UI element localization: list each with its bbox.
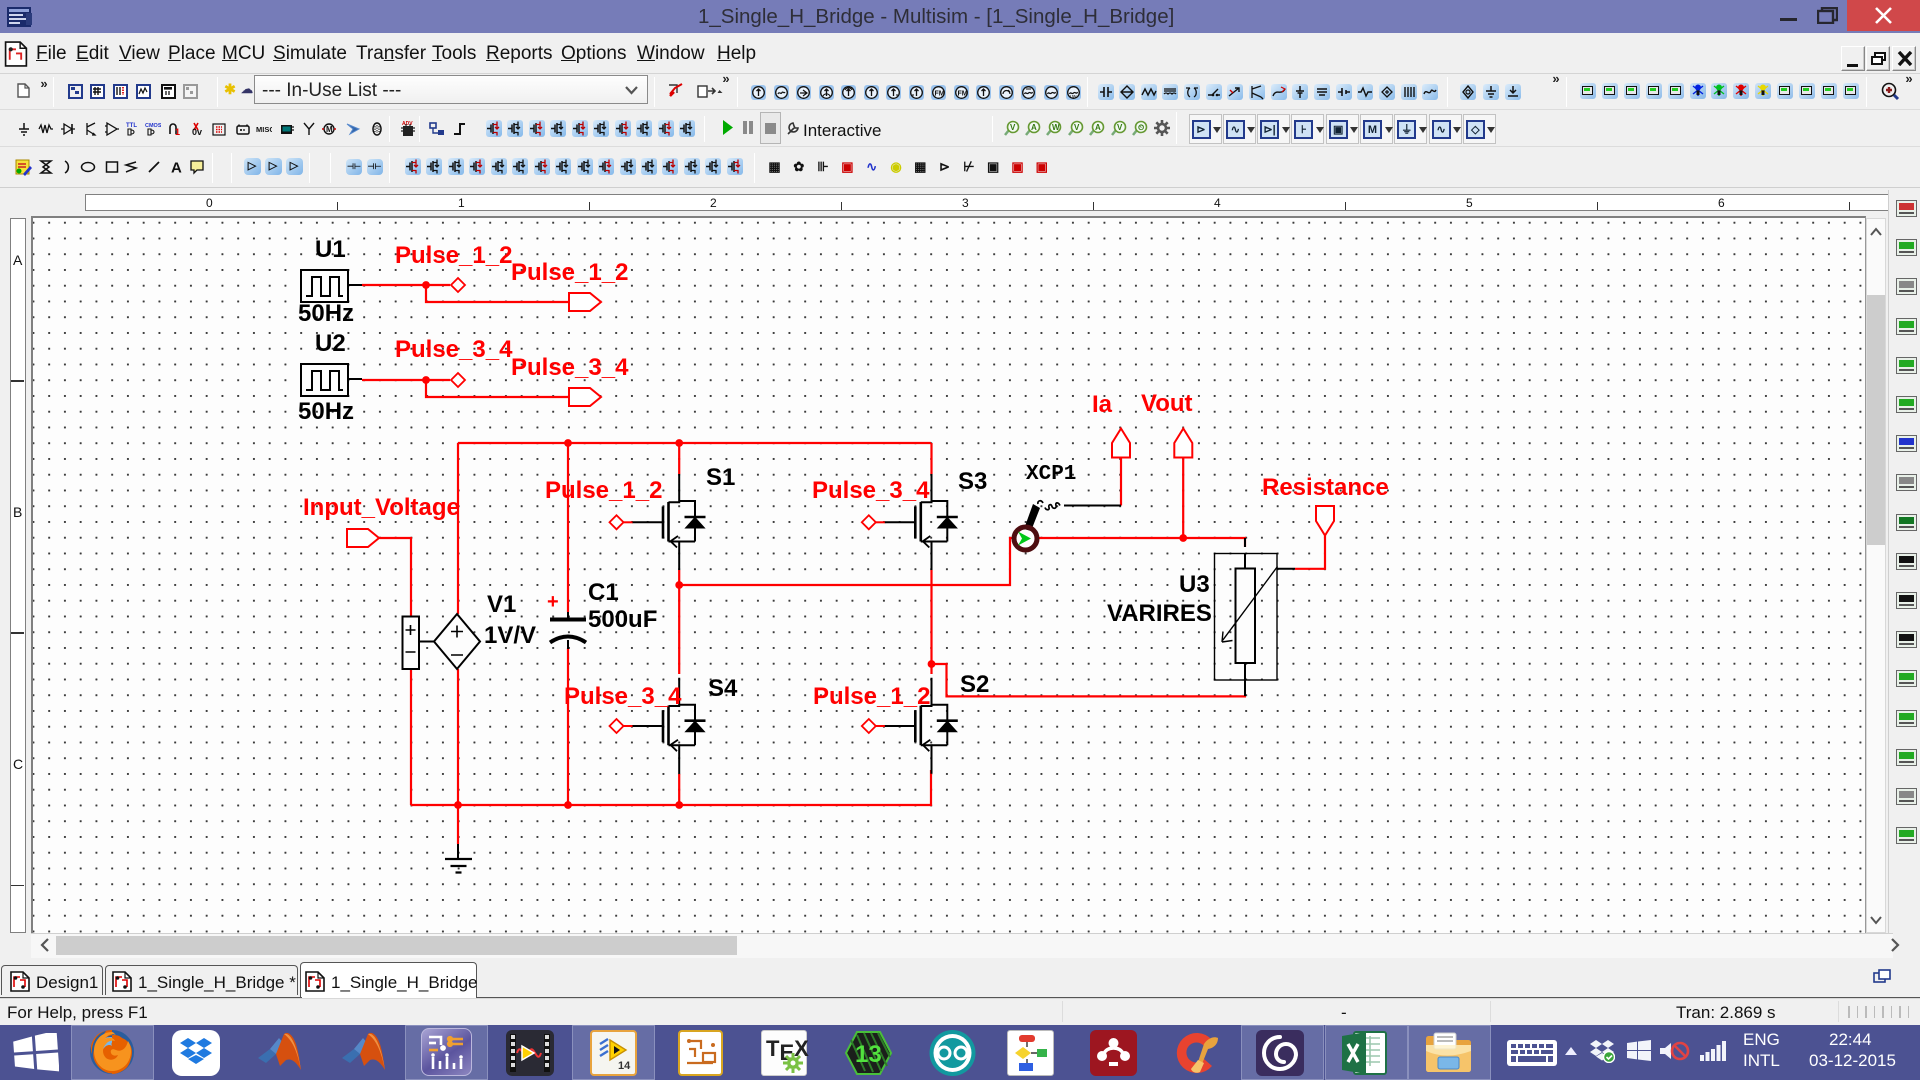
svg-text:MISC: MISC bbox=[256, 125, 272, 134]
svg-text:V: V bbox=[1074, 123, 1080, 132]
svg-text:13: 13 bbox=[855, 1041, 882, 1068]
svg-text:1: 1 bbox=[175, 127, 180, 137]
svg-text:uw: uw bbox=[1070, 94, 1077, 100]
svg-text:V: V bbox=[1117, 123, 1123, 132]
svg-text:FM: FM bbox=[957, 90, 967, 97]
svg-text:A: A bbox=[1031, 123, 1037, 132]
svg-text:CMOS: CMOS bbox=[145, 123, 161, 129]
svg-text:W: W bbox=[1052, 123, 1060, 132]
svg-text:FM: FM bbox=[935, 90, 945, 97]
svg-text:⏲: ⏲ bbox=[1138, 123, 1144, 132]
svg-text:V: V bbox=[1010, 123, 1016, 132]
svg-text:TTL: TTL bbox=[126, 123, 137, 129]
svg-text:14: 14 bbox=[618, 1060, 631, 1070]
svg-text:M: M bbox=[326, 125, 333, 134]
svg-text:A: A bbox=[1095, 123, 1101, 132]
svg-text:0v: 0v bbox=[192, 127, 202, 137]
svg-text:A: A bbox=[171, 160, 182, 176]
